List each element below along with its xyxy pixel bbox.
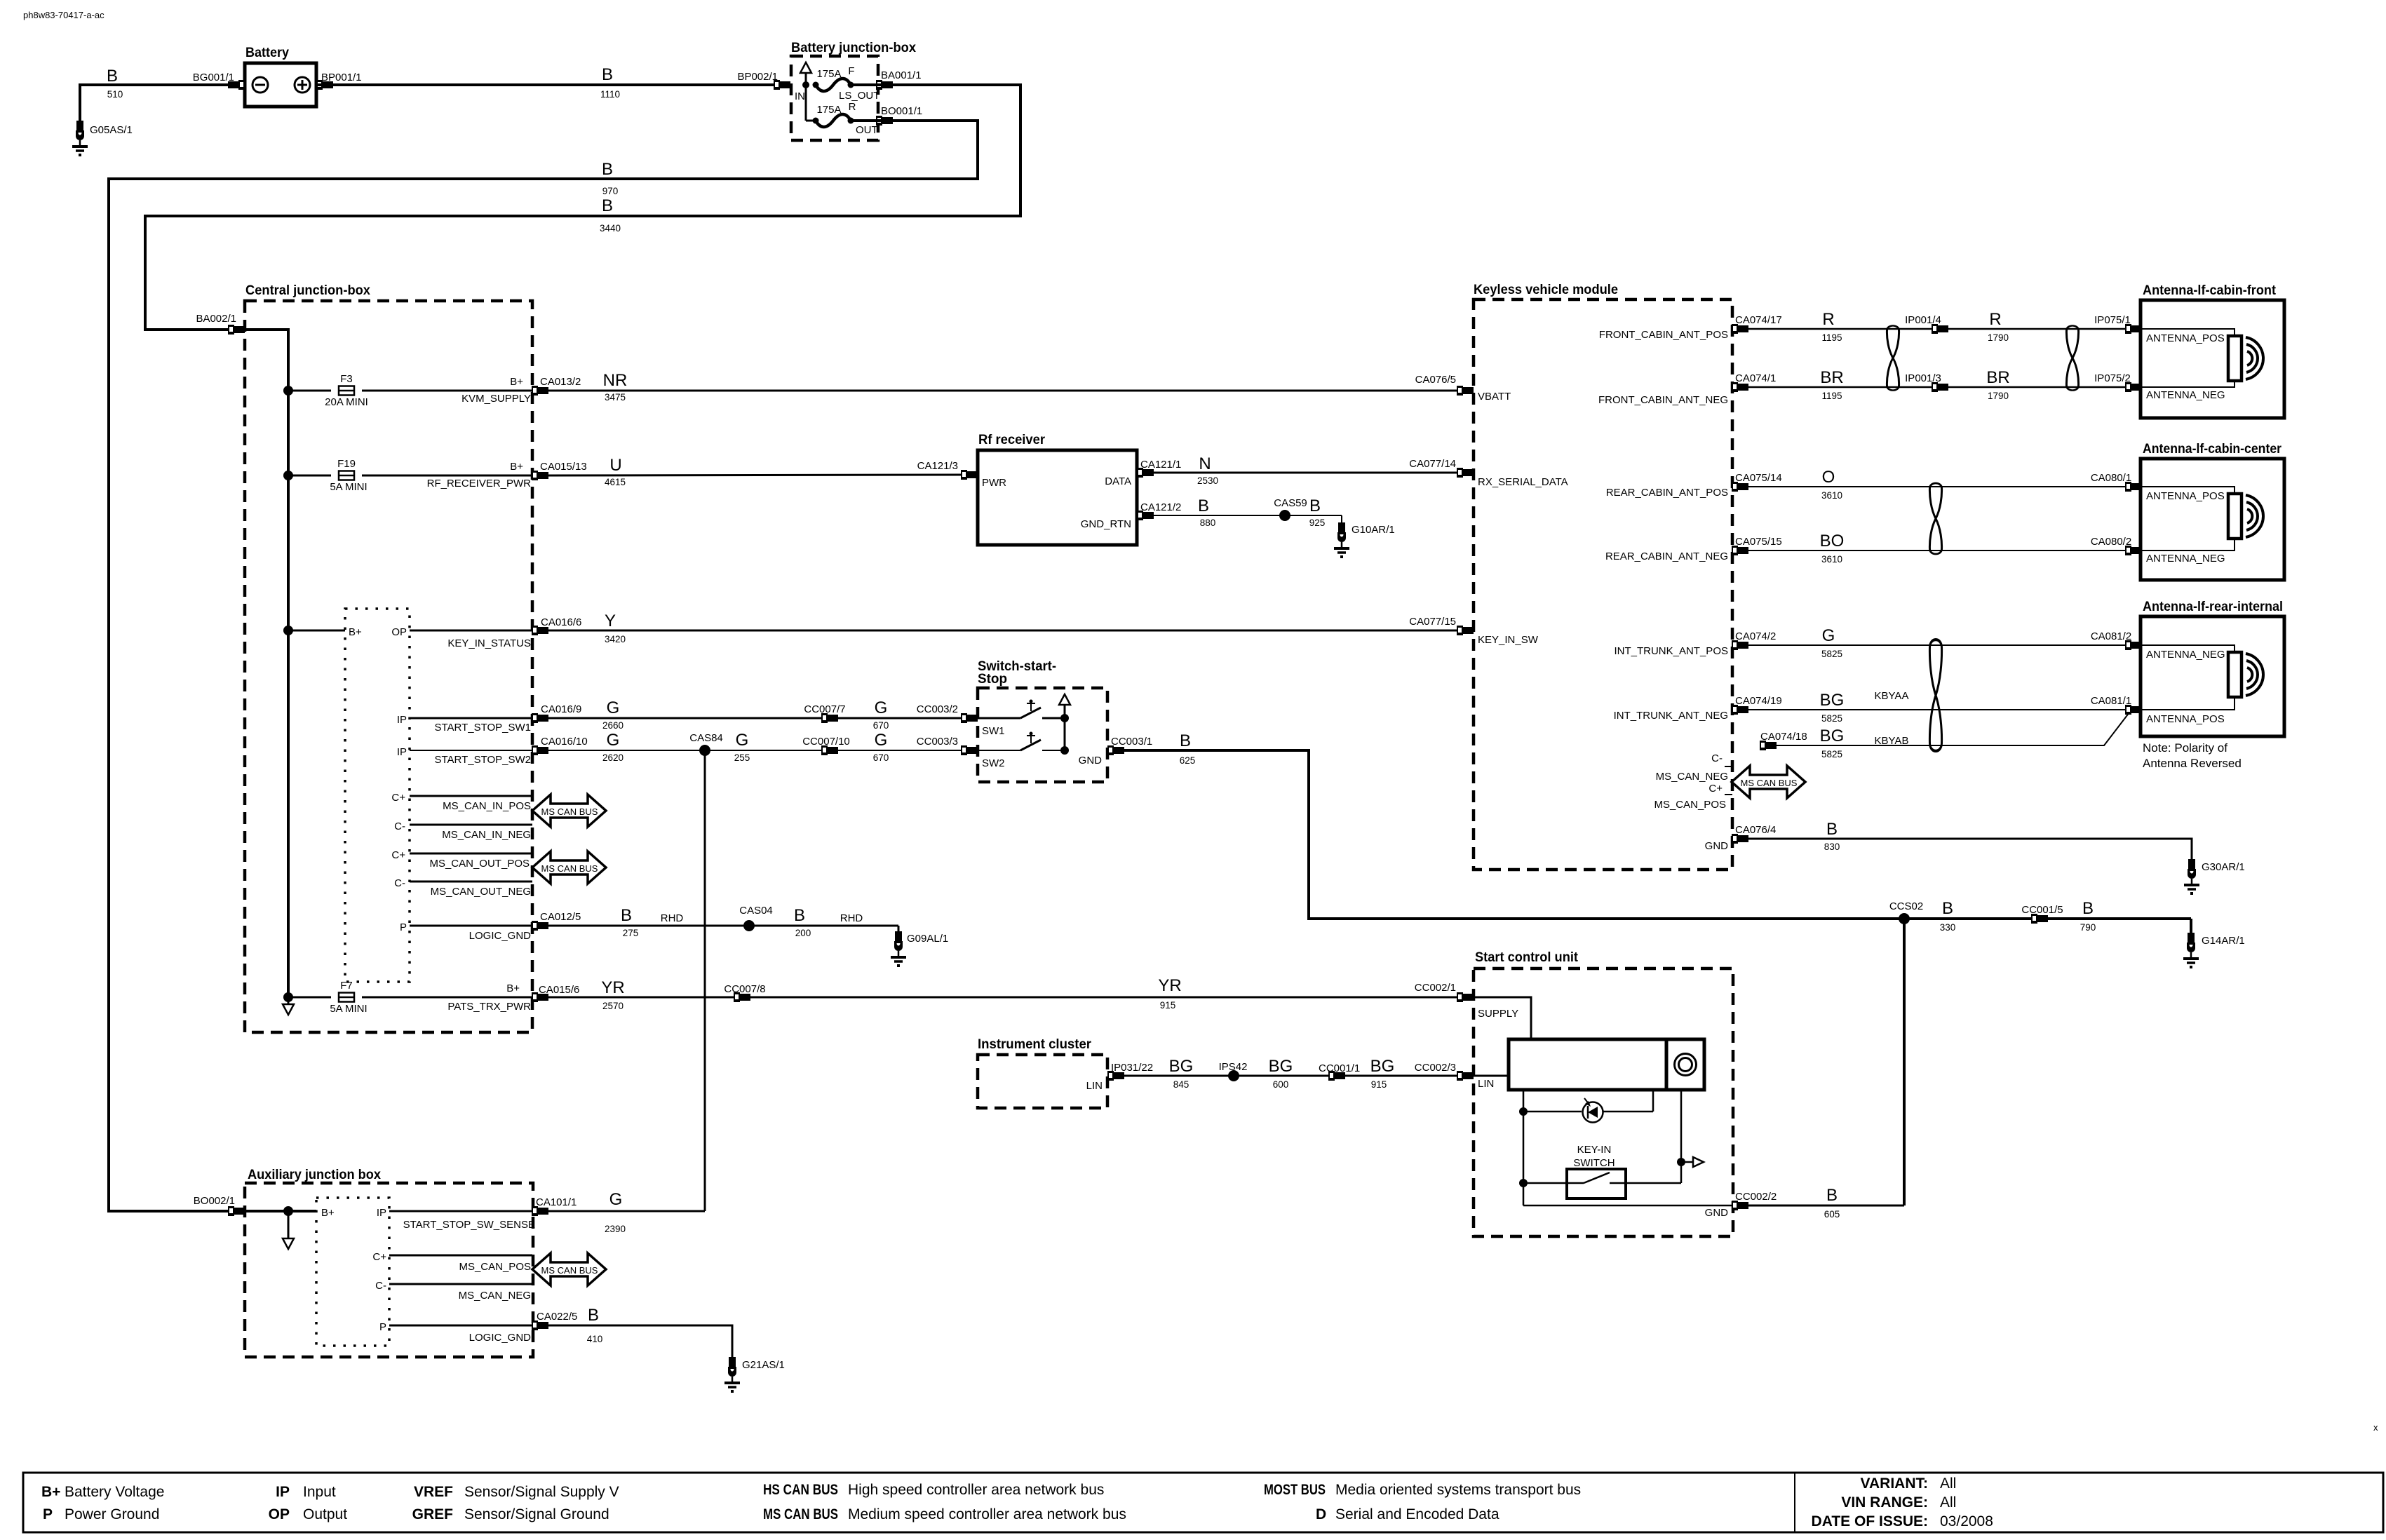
svg-text:1110: 1110 [600, 89, 620, 100]
svg-text:x: x [2373, 1422, 2378, 1433]
svg-text:510: 510 [107, 89, 123, 100]
svg-text:G10AR/1: G10AR/1 [1352, 524, 1395, 536]
svg-text:D: D [1316, 1506, 1326, 1522]
svg-text:YR: YR [601, 978, 624, 997]
inner dotted module box CJB [345, 609, 410, 982]
svg-text:Battery: Battery [245, 46, 289, 60]
svg-text:B: B [621, 906, 632, 925]
svg-text:IN: IN [795, 90, 805, 102]
svg-text:GND: GND [1705, 1207, 1729, 1219]
svg-text:MS CAN BUS: MS CAN BUS [763, 1506, 838, 1522]
wire B 1110 battery to BJB [316, 83, 791, 86]
svg-text:OUT: OUT [856, 124, 878, 136]
wire PATS_TRX_PWR [362, 997, 540, 999]
svg-text:MS_CAN_POS: MS_CAN_POS [1654, 799, 1726, 811]
svg-text:CC003/3: CC003/3 [917, 736, 958, 748]
connector CA016/9 [532, 713, 548, 723]
svg-text:CA074/18: CA074/18 [1760, 731, 1807, 743]
svg-text:Antenna-lf-rear-internal: Antenna-lf-rear-internal [2143, 600, 2283, 614]
svg-text:INT_TRUNK_ANT_NEG: INT_TRUNK_ANT_NEG [1614, 710, 1728, 722]
svg-text:REAR_CABIN_ANT_NEG: REAR_CABIN_ANT_NEG [1605, 551, 1728, 562]
svg-text:LIN: LIN [1086, 1080, 1103, 1092]
wire KEY_IN_STATUS [288, 630, 345, 632]
connector CA121/2 [1137, 511, 1154, 520]
svg-text:255: 255 [734, 752, 750, 763]
svg-text:CAS59: CAS59 [1274, 497, 1307, 509]
svg-text:B: B [602, 160, 613, 179]
svg-text:C-: C- [394, 877, 405, 889]
svg-text:2570: 2570 [602, 1001, 624, 1011]
connector CA101/1 [532, 1206, 548, 1216]
svg-text:DATA: DATA [1105, 475, 1131, 487]
svg-text:BO001/1: BO001/1 [881, 105, 922, 117]
ground G05AS/1 [72, 121, 88, 156]
svg-text:R: R [849, 101, 856, 113]
svg-text:CA013/2: CA013/2 [540, 376, 581, 388]
svg-text:2620: 2620 [602, 752, 624, 763]
svg-text:B: B [107, 67, 118, 86]
svg-text:5825: 5825 [1821, 749, 1842, 759]
wire B 880 [1154, 515, 1342, 516]
svg-text:MS_CAN_IN_POS: MS_CAN_IN_POS [443, 800, 531, 812]
node F7 tap [283, 992, 293, 1002]
svg-text:CA076/4: CA076/4 [1735, 824, 1776, 836]
svg-text:670: 670 [873, 720, 889, 731]
svg-text:LOGIC_GND: LOGIC_GND [469, 930, 532, 942]
svg-text:Start control unit: Start control unit [1475, 950, 1579, 965]
svg-text:BG: BG [1820, 727, 1845, 745]
wire START_STOP_SW_SENSE [389, 1210, 540, 1213]
connector CA012/5 [532, 921, 548, 931]
svg-text:GREF: GREF [412, 1506, 454, 1522]
svg-text:MS CAN BUS: MS CAN BUS [541, 806, 598, 817]
svg-text:CC007/8: CC007/8 [724, 983, 765, 995]
svg-text:CA077/15: CA077/15 [1409, 616, 1456, 628]
B+ up arrow [805, 73, 807, 85]
svg-text:B+: B+ [41, 1484, 60, 1500]
svg-text:605: 605 [1824, 1209, 1840, 1220]
wire junction [802, 81, 809, 88]
fuse 175A R (OUT) [806, 120, 816, 122]
svg-text:275: 275 [623, 928, 639, 938]
svg-text:915: 915 [1160, 1000, 1176, 1011]
svg-text:CA074/2: CA074/2 [1735, 630, 1776, 642]
svg-text:SW2: SW2 [982, 757, 1005, 769]
svg-text:VARIANT:: VARIANT: [1861, 1475, 1928, 1492]
node KEY tap [283, 626, 293, 635]
svg-text:CA074/1: CA074/1 [1735, 372, 1776, 384]
svg-text:Power Ground: Power Ground [65, 1506, 159, 1522]
svg-text:F3: F3 [340, 373, 353, 385]
svg-text:KEY_IN_SW: KEY_IN_SW [1478, 634, 1539, 646]
svg-text:G30AR/1: G30AR/1 [2202, 861, 2245, 873]
svg-text:IP: IP [276, 1484, 290, 1500]
ground G10AR/1 [1341, 515, 1342, 522]
node F19 tap [283, 471, 293, 480]
wire BG 845 [1124, 1075, 1462, 1077]
connector CA015/13 [532, 471, 548, 480]
scu internal box [1509, 1039, 1704, 1090]
ground G30AR/1 [2184, 859, 2199, 895]
svg-text:BG: BG [1370, 1057, 1395, 1076]
svg-text:OP: OP [269, 1506, 290, 1522]
svg-text:IP: IP [397, 746, 407, 758]
svg-text:RX_SERIAL_DATA: RX_SERIAL_DATA [1478, 476, 1568, 488]
wire Y 3420 to KVM KEY_IN_SW [548, 630, 1462, 632]
wire KVM_SUPPLY inside CJB [362, 390, 540, 392]
svg-text:Central junction-box: Central junction-box [245, 283, 370, 298]
svg-text:4615: 4615 [605, 477, 626, 487]
svg-text:1790: 1790 [1988, 332, 2009, 343]
svg-text:Serial and Encoded Data: Serial and Encoded Data [1335, 1506, 1499, 1522]
svg-text:VBATT: VBATT [1478, 391, 1511, 403]
wire G 2660 [548, 717, 971, 720]
svg-text:B: B [1826, 820, 1838, 839]
svg-text:5825: 5825 [1821, 713, 1842, 724]
svg-text:BA002/1: BA002/1 [196, 313, 236, 325]
wire N 2530 to KVM RX_SERIAL_DATA [1154, 472, 1462, 474]
svg-text:MOST BUS: MOST BUS [1264, 1482, 1326, 1498]
svg-text:INT_TRUNK_ANT_POS: INT_TRUNK_ANT_POS [1614, 645, 1728, 657]
svg-text:CA016/10: CA016/10 [541, 736, 588, 748]
svg-text:All: All [1940, 1494, 1956, 1511]
svg-text:G: G [609, 1190, 623, 1209]
svg-text:CC002/1: CC002/1 [1415, 982, 1456, 994]
svg-text:670: 670 [873, 752, 889, 763]
svg-text:1195: 1195 [1821, 391, 1842, 401]
svg-text:CA076/5: CA076/5 [1415, 374, 1456, 386]
svg-text:B+: B+ [506, 982, 520, 994]
svg-text:C+: C+ [1708, 783, 1723, 795]
svg-text:CA077/14: CA077/14 [1409, 458, 1456, 470]
svg-text:CA075/15: CA075/15 [1735, 536, 1782, 548]
svg-text:BP002/1: BP002/1 [737, 71, 778, 83]
svg-text:ANTENNA_POS: ANTENNA_POS [2146, 490, 2225, 502]
svg-text:C+: C+ [391, 849, 405, 861]
svg-text:Input: Input [303, 1484, 336, 1500]
svg-text:CA016/9: CA016/9 [541, 703, 581, 715]
svg-text:Battery junction-box: Battery junction-box [791, 41, 916, 55]
svg-text:3440: 3440 [600, 223, 621, 234]
svg-text:YR: YR [1158, 976, 1181, 995]
svg-text:SWITCH: SWITCH [1573, 1157, 1615, 1169]
svg-text:MS_CAN_OUT_POS: MS_CAN_OUT_POS [429, 858, 530, 870]
svg-text:G: G [875, 698, 888, 717]
svg-text:880: 880 [1200, 518, 1216, 528]
svg-text:OP: OP [391, 626, 407, 638]
svg-text:C+: C+ [391, 792, 405, 804]
start button rings [1675, 1054, 1697, 1076]
svg-text:IP031/22: IP031/22 [1111, 1062, 1153, 1074]
svg-text:ANTENNA_NEG: ANTENNA_NEG [2146, 553, 2225, 565]
svg-text:MS_CAN_NEG: MS_CAN_NEG [459, 1290, 531, 1302]
fuse F7 5A MINI [288, 997, 331, 999]
svg-text:925: 925 [1309, 518, 1326, 528]
svg-text:LOGIC_GND: LOGIC_GND [469, 1332, 532, 1344]
svg-text:Auxiliary junction box: Auxiliary junction box [248, 1168, 381, 1182]
wire B 625 to CCS02 [1124, 750, 1904, 919]
svg-text:START_STOP_SW1: START_STOP_SW1 [434, 722, 531, 734]
svg-text:G05AS/1: G05AS/1 [90, 124, 133, 136]
ground G09AL/1 [898, 926, 900, 931]
svg-text:790: 790 [2080, 922, 2096, 933]
svg-text:High speed controller area net: High speed controller area network bus [848, 1482, 1104, 1498]
svg-text:3610: 3610 [1821, 490, 1842, 501]
internal gnd bus with up arrow [1059, 694, 1070, 705]
svg-text:G14AR/1: G14AR/1 [2202, 935, 2245, 947]
legend box [23, 1473, 2383, 1532]
svg-text:830: 830 [1824, 842, 1840, 852]
svg-text:B: B [1198, 497, 1209, 515]
fuse 175A F (LS_OUT) [813, 79, 854, 91]
fuse F3 20A MINI [288, 390, 331, 392]
svg-text:GND: GND [1705, 840, 1729, 852]
switch SW1 [978, 717, 1020, 720]
svg-text:CA016/6: CA016/6 [541, 616, 581, 628]
svg-text:P: P [379, 1321, 386, 1333]
svg-text:ph8w83-70417-a-ac: ph8w83-70417-a-ac [23, 10, 105, 20]
svg-text:Sensor/Signal Ground: Sensor/Signal Ground [464, 1506, 609, 1522]
connector CA016/10 [532, 745, 548, 755]
svg-text:START_STOP_SW_SENSE: START_STOP_SW_SENSE [403, 1219, 535, 1231]
wire NR 3475 to KVM VBATT [548, 390, 1462, 392]
svg-text:G21AS/1: G21AS/1 [742, 1359, 785, 1371]
svg-text:G: G [736, 731, 749, 750]
wire RF_RECEIVER_PWR inside CJB [362, 475, 540, 477]
svg-text:175A: 175A [816, 104, 841, 116]
svg-text:ANTENNA_NEG: ANTENNA_NEG [2146, 649, 2225, 661]
svg-text:BR: BR [1820, 368, 1843, 387]
svg-text:VIN RANGE:: VIN RANGE: [1841, 1494, 1928, 1511]
wire B 410 [548, 1325, 732, 1357]
svg-text:DATE OF ISSUE:: DATE OF ISSUE: [1812, 1513, 1928, 1529]
svg-text:B: B [1309, 497, 1321, 515]
svg-text:Y: Y [605, 612, 616, 630]
svg-text:CCS02: CCS02 [1889, 900, 1923, 912]
ground G21AS/1 [724, 1357, 740, 1393]
svg-text:B: B [602, 65, 613, 84]
svg-text:Media oriented systems transpo: Media oriented systems transport bus [1335, 1482, 1581, 1498]
wire B+ feed inside AJB [245, 1210, 316, 1213]
svg-text:VREF: VREF [414, 1484, 453, 1500]
svg-text:Antenna-lf-cabin-center: Antenna-lf-cabin-center [2143, 442, 2282, 457]
svg-text:CA012/5: CA012/5 [540, 911, 581, 923]
connector CC003/1 [1107, 745, 1124, 755]
svg-text:IP: IP [377, 1207, 386, 1219]
svg-text:CA121/3: CA121/3 [917, 460, 958, 472]
svg-text:MS_CAN_IN_NEG: MS_CAN_IN_NEG [442, 829, 531, 841]
svg-text:Antenna Reversed: Antenna Reversed [2143, 757, 2242, 770]
wire CAS84 to AJB START_STOP_SW_SENSE [704, 750, 706, 1211]
svg-text:2390: 2390 [605, 1224, 626, 1234]
svg-text:Keyless vehicle module: Keyless vehicle module [1474, 283, 1618, 297]
svg-text:KEY_IN_STATUS: KEY_IN_STATUS [447, 637, 531, 649]
svg-text:FRONT_CABIN_ANT_POS: FRONT_CABIN_ANT_POS [1599, 329, 1728, 341]
svg-text:GND_RTN: GND_RTN [1081, 518, 1131, 530]
svg-text:LIN: LIN [1478, 1078, 1494, 1090]
svg-text:B+: B+ [321, 1207, 335, 1219]
svg-text:600: 600 [1273, 1079, 1289, 1090]
connector CA013/2 [532, 386, 548, 396]
connector CA016/6 [532, 626, 548, 635]
wire CCS02 bus [1904, 919, 2191, 1205]
svg-text:ANTENNA_POS: ANTENNA_POS [2146, 713, 2225, 725]
svg-text:CC003/1: CC003/1 [1111, 736, 1152, 748]
svg-text:410: 410 [587, 1334, 603, 1344]
svg-text:Antenna-lf-cabin-front: Antenna-lf-cabin-front [2143, 283, 2277, 298]
svg-text:330: 330 [1940, 922, 1956, 933]
svg-text:CC003/2: CC003/2 [917, 703, 958, 715]
svg-text:RF_RECEIVER_PWR: RF_RECEIVER_PWR [427, 478, 532, 489]
svg-text:LS_OUT: LS_OUT [839, 90, 879, 102]
svg-text:CAS84: CAS84 [689, 732, 723, 744]
svg-text:GND: GND [1079, 755, 1103, 766]
wire CJB internal feed bus [245, 330, 288, 997]
connector CA022/5 [532, 1321, 548, 1330]
svg-text:915: 915 [1371, 1079, 1387, 1090]
svg-text:KBYAB: KBYAB [1875, 735, 1909, 747]
svg-text:3420: 3420 [605, 634, 626, 644]
MS CAN BUS arrow in [532, 795, 606, 827]
node F3 tap [283, 386, 293, 396]
svg-text:Medium speed controller area n: Medium speed controller area network bus [848, 1506, 1126, 1522]
svg-text:SUPPLY: SUPPLY [1478, 1008, 1518, 1020]
svg-text:FRONT_CABIN_ANT_NEG: FRONT_CABIN_ANT_NEG [1598, 394, 1728, 406]
svg-text:BO: BO [1820, 532, 1845, 551]
svg-text:BA001/1: BA001/1 [881, 69, 922, 81]
svg-text:SW1: SW1 [982, 725, 1005, 737]
svg-text:BR: BR [1986, 368, 2009, 387]
svg-text:CA101/1: CA101/1 [536, 1196, 577, 1208]
svg-text:B: B [1942, 899, 1953, 918]
svg-text:03/2008: 03/2008 [1940, 1513, 1993, 1529]
svg-text:N: N [1199, 454, 1211, 473]
svg-text:CC002/3: CC002/3 [1415, 1062, 1456, 1074]
svg-text:CAS04: CAS04 [739, 905, 773, 917]
svg-text:CA121/2: CA121/2 [1140, 501, 1181, 513]
svg-text:200: 200 [795, 928, 811, 938]
svg-text:P: P [43, 1506, 53, 1522]
svg-text:CA074/19: CA074/19 [1735, 695, 1782, 707]
svg-text:ANTENNA_NEG: ANTENNA_NEG [2146, 389, 2225, 401]
svg-text:B+: B+ [349, 626, 362, 638]
svg-text:B: B [1826, 1186, 1838, 1205]
inner dotted module box AJB [316, 1198, 389, 1346]
svg-text:B: B [2082, 899, 2094, 918]
svg-text:MS CAN BUS: MS CAN BUS [541, 1265, 598, 1276]
svg-text:G: G [875, 731, 888, 750]
twisted pair trunk [1929, 640, 1941, 751]
wire YR 2570 [548, 997, 1462, 999]
power arrow down AJB [288, 1211, 290, 1238]
svg-text:MS_CAN_POS: MS_CAN_POS [459, 1261, 531, 1273]
svg-text:G: G [1822, 626, 1835, 645]
svg-text:970: 970 [602, 186, 619, 196]
svg-text:MS_CAN_OUT_NEG: MS_CAN_OUT_NEG [431, 886, 531, 898]
svg-text:RHD: RHD [661, 912, 684, 924]
svg-text:625: 625 [1180, 755, 1196, 766]
svg-text:CA015/13: CA015/13 [540, 461, 587, 473]
svg-text:845: 845 [1173, 1079, 1189, 1090]
twisted pair front 2 [2066, 325, 2078, 390]
switch SW2 [978, 750, 1020, 751]
svg-text:1195: 1195 [1821, 332, 1842, 343]
svg-text:G: G [607, 731, 620, 750]
svg-text:CA015/6: CA015/6 [539, 984, 579, 996]
svg-text:CC001/5: CC001/5 [2021, 904, 2063, 916]
wire B 605 [1748, 1205, 1904, 1207]
svg-text:IP: IP [397, 714, 407, 726]
svg-text:B: B [602, 196, 613, 215]
svg-text:B+: B+ [510, 376, 523, 388]
MS CAN BUS arrow out [532, 851, 606, 884]
MS CAN BUS arrow AJB [532, 1253, 606, 1285]
svg-text:G: G [607, 698, 620, 717]
svg-text:CA121/1: CA121/1 [1140, 459, 1181, 471]
svg-text:KVM_SUPPLY: KVM_SUPPLY [461, 393, 531, 405]
svg-text:ANTENNA_POS: ANTENNA_POS [2146, 332, 2225, 344]
svg-text:B: B [588, 1306, 599, 1325]
wire SCU GND to CC002/2 [1523, 1205, 1740, 1207]
svg-text:PWR: PWR [982, 477, 1006, 489]
svg-text:CA075/14: CA075/14 [1735, 472, 1782, 484]
svg-text:C+: C+ [372, 1251, 386, 1263]
svg-text:C-: C- [1711, 752, 1723, 764]
svg-text:Output: Output [303, 1506, 347, 1522]
wire B 510 battery to ground [80, 85, 231, 121]
svg-text:REAR_CABIN_ANT_POS: REAR_CABIN_ANT_POS [1606, 487, 1728, 499]
scu right riser with output arrow [1680, 1090, 1683, 1183]
wire from BA001/1 to CJB (B 3440) [145, 85, 1020, 330]
wire G 2390 up to CAS84 [548, 1210, 705, 1213]
connector IP031/22 [1107, 1071, 1124, 1081]
svg-text:KEY-IN: KEY-IN [1577, 1144, 1612, 1156]
svg-text:Sensor/Signal Supply V: Sensor/Signal Supply V [464, 1484, 619, 1500]
svg-text:Rf receiver: Rf receiver [978, 433, 1046, 447]
svg-text:NR: NR [603, 371, 628, 390]
svg-text:U: U [609, 456, 621, 475]
svg-text:2660: 2660 [602, 720, 624, 731]
svg-text:Stop: Stop [978, 672, 1007, 687]
wire G 2620 [548, 750, 971, 751]
svg-text:O: O [1822, 468, 1835, 487]
svg-text:R: R [1989, 310, 2001, 329]
twisted pair rear cabin [1929, 483, 1941, 554]
svg-text:Battery Voltage: Battery Voltage [65, 1484, 164, 1500]
svg-text:B: B [794, 906, 805, 925]
svg-text:B: B [1180, 731, 1191, 750]
connector CA121/1 [1137, 468, 1154, 478]
twisted pair front 1 [1887, 325, 1899, 390]
svg-text:BG: BG [1269, 1057, 1293, 1076]
svg-text:B+: B+ [510, 461, 523, 473]
svg-text:START_STOP_SW2: START_STOP_SW2 [434, 754, 531, 766]
svg-text:F: F [848, 65, 854, 77]
fuse F19 5A MINI [288, 475, 331, 477]
svg-text:MS_CAN_NEG: MS_CAN_NEG [1656, 771, 1728, 783]
wire U 4615 to Rf receiver [548, 475, 964, 475]
svg-text:P: P [400, 921, 407, 933]
svg-text:2530: 2530 [1197, 475, 1218, 486]
svg-text:5825: 5825 [1821, 649, 1842, 659]
svg-text:BG: BG [1169, 1057, 1194, 1076]
svg-text:F19: F19 [337, 458, 356, 470]
svg-text:HS CAN BUS: HS CAN BUS [763, 1482, 838, 1498]
svg-text:C-: C- [394, 820, 405, 832]
svg-text:CA022/5: CA022/5 [537, 1311, 577, 1323]
svg-text:PATS_TRX_PWR: PATS_TRX_PWR [447, 1001, 531, 1013]
svg-text:1790: 1790 [1988, 391, 2009, 401]
